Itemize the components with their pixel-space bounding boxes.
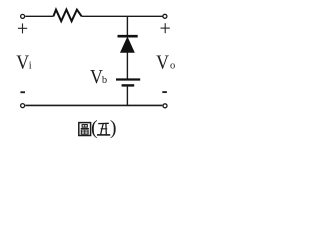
wire bottom rail — [25, 104, 162, 106]
terminal bottom-right — [163, 104, 167, 108]
diode D triangle — [121, 37, 135, 52]
svg-text:(: ( — [91, 117, 98, 139]
caption glyph 五 — [97, 123, 110, 135]
terminal bottom-left — [21, 104, 25, 108]
minus sign right — [162, 91, 167, 93]
plus sign left — [18, 23, 27, 33]
svg-text:b: b — [102, 75, 107, 86]
wire top rail right segment — [82, 15, 163, 17]
terminal top-right — [163, 14, 167, 18]
terminal top-left — [21, 14, 25, 18]
svg-text:i: i — [29, 60, 32, 71]
resistor R — [53, 10, 81, 22]
plus sign right — [161, 23, 170, 33]
wire battery to bottom rail — [126, 85, 128, 105]
diode D cathode bar — [118, 35, 138, 38]
minus sign left — [20, 91, 25, 93]
svg-text:V: V — [156, 51, 169, 73]
battery Vb long plate — [116, 78, 140, 80]
svg-text:): ) — [110, 117, 117, 139]
svg-text:o: o — [170, 60, 175, 71]
wire between diode and battery — [126, 52, 128, 79]
svg-text:V: V — [16, 51, 29, 73]
caption figure(5) : 圖 glyph drawn — [79, 123, 91, 136]
wire vertical branch upper — [126, 16, 128, 35]
wire top rail left segment — [25, 15, 53, 17]
battery Vb short plate — [122, 84, 135, 86]
